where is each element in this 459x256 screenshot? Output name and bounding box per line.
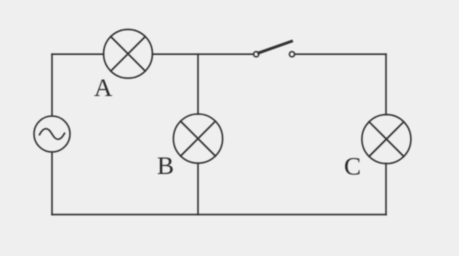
ac source — [34, 116, 70, 152]
wire left vertical (top-left corner to AC source) — [51, 54, 53, 116]
lamp A — [104, 29, 153, 78]
wire lamp B to bottom wire — [197, 163, 199, 214]
svg-text:C: C — [344, 152, 361, 181]
wire switch to top-right corner — [295, 53, 386, 55]
svg-text:B: B — [157, 151, 174, 180]
wire right vertical (top-right corner to lamp C) — [385, 54, 387, 114]
lamp B — [173, 114, 222, 163]
wire top-left horizontal — [52, 53, 104, 55]
svg-text:A: A — [94, 73, 113, 102]
wire lamp C to bottom-right corner — [385, 164, 387, 215]
switch — [254, 41, 295, 57]
node junction middle-top — [197, 54, 199, 114]
lamp C — [362, 115, 411, 164]
wire bottom horizontal — [52, 214, 386, 216]
wire ac source to bottom-left corner — [51, 152, 53, 215]
wire lamp A to switch — [152, 53, 253, 55]
